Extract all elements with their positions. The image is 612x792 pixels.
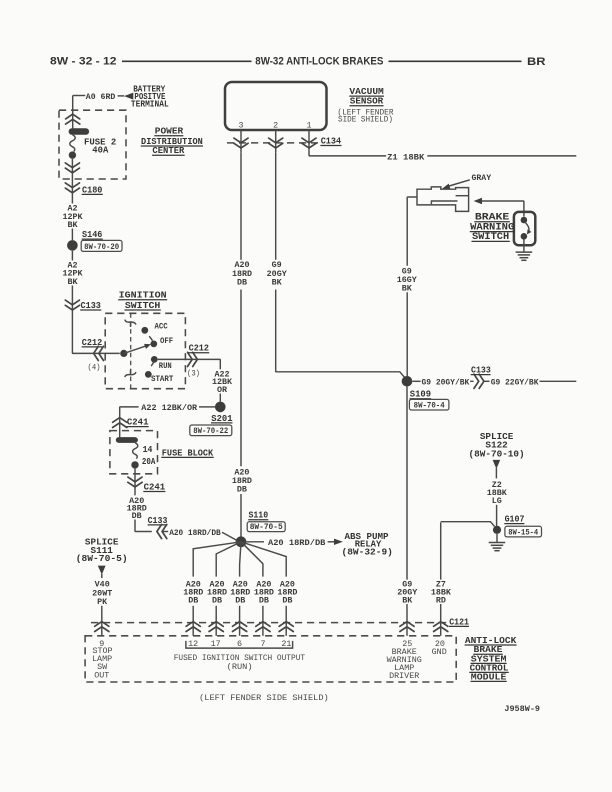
- reference box 8W-70-20: [81, 240, 122, 251]
- wire fuse to PDC edge: [71, 159, 73, 184]
- svg-text:(3): (3): [187, 369, 200, 379]
- svg-text:CENTER: CENTER: [152, 145, 184, 156]
- wire G9 22GY/BK continuation: [540, 380, 577, 382]
- svg-text:RUN: RUN: [159, 361, 172, 371]
- svg-text:8W-70-20: 8W-70-20: [84, 243, 119, 252]
- svg-text:3: 3: [238, 120, 243, 130]
- wire into splice S201: [219, 394, 221, 402]
- brake warning switch upper contact: [521, 217, 528, 224]
- connector C212 right chevrons: [188, 352, 198, 366]
- svg-text:BK: BK: [402, 596, 413, 606]
- connector C133 chevrons on A20 line: [157, 524, 167, 538]
- ignition switch box: [105, 313, 185, 388]
- svg-text:A20 18RD/DB: A20 18RD/DB: [169, 528, 221, 538]
- header rule right: [389, 60, 522, 62]
- svg-text:BK: BK: [272, 278, 283, 288]
- svg-text:A22 12BK/OR: A22 12BK/OR: [141, 403, 198, 413]
- svg-text:(RUN): (RUN): [227, 662, 253, 672]
- ignition contact RUN: [151, 356, 158, 363]
- svg-text:(8W-70-5): (8W-70-5): [76, 553, 128, 564]
- svg-text:PK: PK: [97, 597, 108, 607]
- brake warning switch arrow: [474, 198, 482, 204]
- svg-text:8W - 32 - 12: 8W - 32 - 12: [50, 55, 117, 67]
- svg-text:DB: DB: [132, 511, 142, 521]
- svg-text:8W-70-5: 8W-70-5: [250, 523, 283, 532]
- splice S201: [215, 402, 226, 413]
- splice S110: [236, 536, 247, 547]
- fuse F2 lower terminal dot: [69, 151, 76, 158]
- svg-text:GRAY: GRAY: [472, 173, 493, 183]
- wire into module pin (run 3): [239, 606, 241, 636]
- ignition switch inner column: [130, 313, 132, 388]
- splice S111 arrow: [98, 566, 106, 575]
- brake warning switch actuator arrow: [526, 223, 530, 231]
- ABS pump relay arrow: [334, 539, 343, 545]
- wire G9 16GY BK to S109: [406, 292, 408, 376]
- wire A0 6RD horizontal stub: [73, 95, 86, 97]
- connector C133 chevrons: [65, 300, 79, 310]
- wire pin 1 through C134: [308, 130, 310, 155]
- splice S109: [402, 376, 413, 387]
- svg-text:SIDE SHIELD): SIDE SHIELD): [338, 115, 393, 125]
- svg-text:Z1 18BK: Z1 18BK: [387, 152, 425, 162]
- wire A20 into S110: [240, 494, 242, 537]
- wire S110 to A20 18RD/DB right label: [247, 541, 265, 543]
- connector C121 chevrons pin 7: [256, 622, 270, 632]
- svg-text:DB: DB: [259, 596, 269, 606]
- fuse 14 lower terminal dot: [131, 461, 138, 468]
- wire C133 to label: [163, 531, 168, 533]
- svg-text:(4): (4): [88, 362, 101, 372]
- wire into module pin (run 5): [285, 606, 287, 636]
- fuse 14 wavy element: [133, 443, 138, 459]
- reference box 8W-70-5: [247, 522, 285, 532]
- svg-text:A20 18RD/DB: A20 18RD/DB: [268, 538, 325, 548]
- wire G9 into module pin 25: [406, 604, 408, 636]
- svg-text:21: 21: [281, 639, 291, 649]
- svg-text:OUT: OUT: [94, 670, 109, 680]
- reference box 8W-70-22: [190, 425, 232, 436]
- wire G107 to ground: [496, 534, 498, 542]
- wire into module pin (run 2): [215, 606, 217, 636]
- battery positive terminal arrow: [124, 93, 133, 100]
- fuse 14 element bar: [116, 437, 138, 443]
- leader line GRAY arrow: [448, 180, 470, 187]
- wire Z7 branch to G107: [441, 522, 495, 527]
- wire S110 to pin 7 (fan): [241, 542, 263, 577]
- wire below S146: [71, 251, 73, 261]
- wire V40 stub below arrow: [101, 574, 103, 578]
- svg-text:DB: DB: [188, 596, 198, 606]
- svg-text:OFF: OFF: [160, 336, 173, 346]
- wire S110 to pin 17 (fan): [216, 542, 241, 577]
- wire A22 from S201 to label: [199, 406, 215, 408]
- wire into module pin (run 4): [262, 606, 264, 636]
- wire G9 from pin 2 down and right to S109: [276, 290, 406, 379]
- svg-text:17: 17: [211, 639, 221, 649]
- svg-text:ACC: ACC: [155, 322, 168, 332]
- svg-text:(8W-32-9): (8W-32-9): [342, 546, 393, 557]
- wire switch to ground: [523, 240, 525, 252]
- svg-text:20A: 20A: [142, 456, 156, 467]
- gray connector divider: [456, 195, 469, 197]
- brake warning switch lower contact: [521, 233, 528, 240]
- svg-text:(8W-70-10): (8W-70-10): [469, 448, 525, 459]
- wire S109 to G9 20GY/BK label: [412, 380, 420, 382]
- power distribution center box: [59, 110, 126, 179]
- connector C121 chevrons pin 6: [233, 622, 247, 632]
- svg-text:SENSOR: SENSOR: [350, 96, 384, 107]
- wire A20 to C133 chevrons: [135, 520, 152, 532]
- gray connector body: [417, 187, 469, 212]
- svg-text:7: 7: [260, 639, 265, 649]
- connector C180 chevrons: [65, 183, 79, 193]
- connector into PDC (chevrons): [66, 114, 80, 124]
- wire pin 3 through C134: [240, 130, 242, 152]
- connector C133 right chevrons: [474, 374, 484, 388]
- wire to brake warning switch: [482, 201, 524, 217]
- svg-text:DB: DB: [237, 278, 247, 288]
- wire G9 20GY BK from S109 down: [406, 387, 408, 580]
- ignition contact ACC: [141, 327, 148, 334]
- wire RUN output via C212: [158, 359, 221, 369]
- svg-text:LG: LG: [492, 496, 502, 506]
- wire Z7 into module pin 20: [440, 604, 442, 636]
- connector C134 chevrons pin 2: [269, 138, 283, 148]
- wire to ABS pump relay arrow: [328, 541, 335, 543]
- svg-text:8W-32 ANTI-LOCK BRAKES: 8W-32 ANTI-LOCK BRAKES: [255, 56, 383, 68]
- svg-text:GND: GND: [432, 647, 447, 657]
- svg-text:OR: OR: [217, 385, 228, 395]
- ground G107: [489, 543, 506, 551]
- svg-text:FUSE BLOCK: FUSE BLOCK: [162, 447, 214, 458]
- fuse F2 wavy element: [70, 135, 75, 152]
- wire into splice S146: [71, 229, 73, 241]
- wire to battery arrow: [118, 95, 125, 97]
- connector out of PDC (chevrons): [65, 163, 79, 173]
- svg-text:SWITCH: SWITCH: [125, 300, 161, 311]
- header rule left: [122, 60, 252, 62]
- wire A22 into fuse block via C241: [120, 407, 139, 437]
- wire A20 18RD DB from pin 3 (upper): [240, 152, 242, 260]
- fuse block box: [110, 431, 158, 474]
- wire S110 to pin 12 (fan): [193, 542, 241, 577]
- connector C121 dashed line: [91, 622, 447, 624]
- OFF contact tick: [149, 336, 152, 340]
- ignition switch wiper arm: [124, 346, 146, 353]
- ignition switch pivot: [120, 350, 127, 357]
- svg-text:DB: DB: [235, 596, 245, 606]
- actuator arrowhead: [527, 229, 532, 234]
- ignition switch lower contact curl: [125, 370, 136, 377]
- connector C134 chevrons pin 3: [234, 138, 248, 148]
- ignition switch upper contact curl: [125, 320, 136, 327]
- svg-text:BK: BK: [67, 277, 78, 287]
- svg-text:START: START: [151, 374, 173, 384]
- wire G9 from pin 2 (upper): [275, 152, 277, 260]
- svg-text:DRIVER: DRIVER: [389, 671, 419, 681]
- connector C121 chevrons pin 25: [400, 622, 414, 632]
- wire into module pin (run 1): [192, 606, 194, 636]
- connector C134 chevrons pin 1: [302, 138, 316, 148]
- connector C121 chevrons pin 17: [209, 622, 223, 632]
- svg-text:6: 6: [237, 639, 242, 649]
- svg-text:DB: DB: [237, 484, 247, 494]
- wire Z7 upper segment: [440, 522, 442, 579]
- connector C134 dashed line: [227, 142, 318, 144]
- fuse F2 element bar: [69, 128, 90, 135]
- svg-text:40A: 40A: [92, 144, 108, 155]
- svg-text:8W-70-4: 8W-70-4: [414, 401, 445, 410]
- reference box 8W-15-4: [505, 526, 542, 537]
- svg-text:DB: DB: [212, 596, 222, 606]
- svg-text:1: 1: [306, 120, 311, 130]
- gray connector latch step: [431, 201, 457, 204]
- wire V40 into module pin 9: [101, 606, 103, 636]
- reference box 8W-70-4: [409, 399, 449, 410]
- wire Z2 from splice arrow: [495, 468, 497, 478]
- wire fuse output via C241 lower: [134, 469, 136, 496]
- splice S146: [67, 240, 78, 251]
- vacuum sensor box: [225, 82, 327, 130]
- svg-text:BR: BR: [527, 56, 546, 68]
- wire battery feed into PDC: [72, 96, 74, 129]
- svg-text:12: 12: [188, 639, 198, 649]
- wire S110 to pin 21 (fan): [241, 542, 286, 577]
- wire Z1 18BK right segment: [427, 155, 576, 157]
- wire Z1 18BK left segment: [309, 155, 386, 156]
- wire S110 to pin 6 (fan): [240, 542, 241, 577]
- wiper arm arrowhead: [144, 344, 151, 349]
- ground junction G107: [493, 526, 501, 534]
- svg-text:J958W-9: J958W-9: [504, 704, 540, 714]
- RUN contact tick: [151, 362, 154, 366]
- connector C121 chevrons pin 20: [434, 622, 448, 632]
- wire into C133 right: [470, 380, 473, 382]
- ground (brake warning switch): [516, 252, 533, 260]
- bracket under pins 12-21: [186, 641, 293, 648]
- connector C212 left chevrons: [94, 346, 104, 360]
- wire G9 16GY BK from connector: [407, 197, 417, 266]
- connector C241 lower chevrons: [128, 477, 142, 487]
- wire below C180: [71, 184, 73, 204]
- svg-text:DB: DB: [282, 596, 292, 606]
- svg-text:MODULE: MODULE: [471, 671, 507, 682]
- svg-text:14: 14: [143, 444, 153, 455]
- wire A2 to ignition switch via C133: [72, 286, 119, 354]
- splice S122 arrow: [493, 460, 501, 469]
- brake warning switch box: [514, 212, 535, 245]
- ignition contact OFF: [150, 341, 157, 348]
- ignition contact START: [145, 371, 152, 378]
- svg-text:2: 2: [273, 120, 278, 130]
- ABS control module box: [85, 636, 456, 682]
- svg-text:BK: BK: [402, 284, 413, 294]
- connector C121 chevrons pin 21: [279, 622, 293, 632]
- svg-text:G9 20GY/BK: G9 20GY/BK: [422, 378, 471, 388]
- wire Z2 to G107: [496, 505, 498, 527]
- wire diagonal into splice S110: [222, 532, 237, 540]
- wire pin 2 through C134: [275, 130, 277, 152]
- wire C133 to G9 22GY/BK label: [484, 380, 489, 382]
- connector C121 chevrons pin 12: [186, 622, 200, 632]
- svg-text:8W-70-22: 8W-70-22: [193, 427, 228, 436]
- connector C241 upper chevrons: [113, 418, 127, 428]
- svg-text:8W-15-4: 8W-15-4: [508, 528, 538, 537]
- connector C121 chevrons pin 9: [95, 622, 109, 632]
- svg-text:TERMINAL: TERMINAL: [131, 99, 169, 110]
- svg-text:G9 22GY/BK: G9 22GY/BK: [491, 378, 540, 388]
- svg-text:(LEFT FENDER SIDE SHIELD): (LEFT FENDER SIDE SHIELD): [199, 693, 329, 703]
- svg-text:A0 6RD: A0 6RD: [86, 92, 116, 102]
- wire A20 18RD DB from pin 3 (mid): [240, 290, 242, 467]
- GRAY arrowhead: [442, 184, 450, 190]
